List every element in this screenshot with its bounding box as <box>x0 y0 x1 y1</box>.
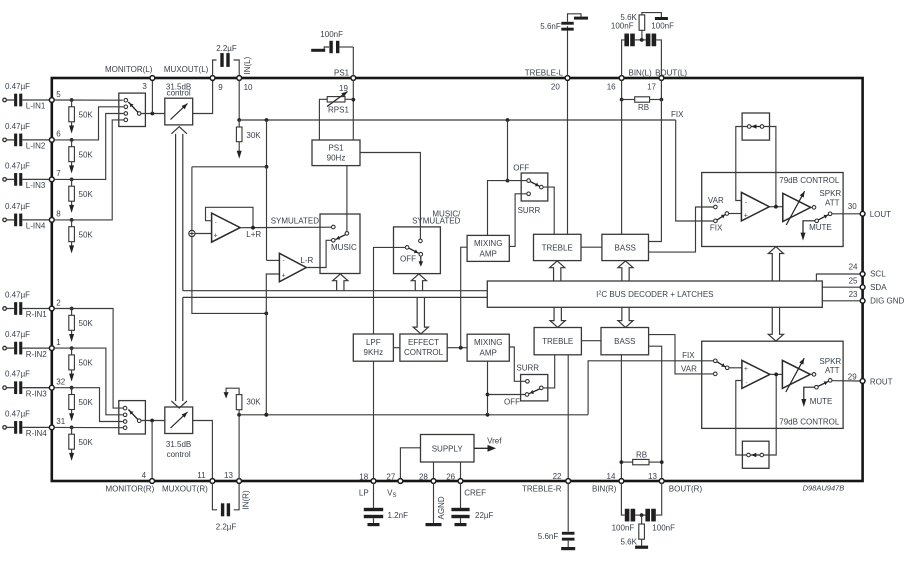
resistor 50K on L-IN2 <box>70 138 74 142</box>
switch SYMULATED/MUSIC <box>320 214 360 274</box>
svg-text:-: - <box>215 219 217 226</box>
ground for 5.6K bottom <box>635 546 648 549</box>
resistor 5.6K top <box>641 30 643 38</box>
pin 6 L-IN2 <box>49 138 54 143</box>
capacitor 2.2uF between pin 11 and pin 13 <box>212 483 217 510</box>
wire PS1 output to music/symulated switch <box>360 153 420 240</box>
resistor 50K on R-IN4 <box>70 426 74 430</box>
resistor 50K on L-IN4 <box>70 218 74 222</box>
I2C arrow into TREBLE R <box>550 307 565 327</box>
pin 2 R-IN1 <box>49 306 54 311</box>
wire MUX-L output to 31.5dB control <box>141 113 165 115</box>
input select switch MUX-L <box>119 93 146 126</box>
svg-text:TREBLE: TREBLE <box>542 243 573 252</box>
svg-text:VAR: VAR <box>708 196 724 205</box>
wire VAR line R from BASS R <box>649 335 714 374</box>
svg-text:50K: 50K <box>79 398 94 407</box>
wire TREBLE L to BASS L <box>581 246 602 248</box>
svg-text:22µF: 22µF <box>475 511 494 520</box>
svg-text:LP: LP <box>359 488 369 497</box>
feedback loop of L+R op-amp <box>206 207 254 227</box>
wire BOUT(L) to BASS L right <box>649 80 662 242</box>
wire pin 26 CREF to SUPPLY <box>460 462 462 479</box>
block PS1 90Hz <box>312 140 360 166</box>
svg-text:R-IN4: R-IN4 <box>26 429 47 438</box>
svg-text:30: 30 <box>848 202 857 211</box>
svg-text:FIX: FIX <box>710 223 723 232</box>
svg-text:100nF: 100nF <box>320 30 343 39</box>
I2C arrow into MUSIC/SYMULATED switch <box>411 274 426 291</box>
wire IN(L) to L-R minus input <box>266 167 268 261</box>
resistor RB R <box>620 460 624 464</box>
svg-text:1: 1 <box>56 338 61 347</box>
I2C arrow into 79dB R <box>768 307 783 341</box>
capacitor 5.6nF on TREBLE-R <box>567 483 569 532</box>
pin 30 LOUT <box>860 211 865 216</box>
ground AGND <box>433 483 435 523</box>
pin 14 BIN(R) <box>619 479 624 484</box>
resistor 50K on L-IN3 <box>70 178 74 182</box>
svg-text:ATT: ATT <box>825 366 840 375</box>
block TREBLE L <box>534 234 582 260</box>
I2C arrow into TREBLE L <box>550 261 565 281</box>
pin 20 TREBLE-L <box>565 76 570 81</box>
volume block 79dB CONTROL R <box>702 341 843 428</box>
pin 23 DIG GND <box>860 298 865 303</box>
svg-text:0.47µF: 0.47µF <box>5 161 30 170</box>
svg-text:L-IN1: L-IN1 <box>26 102 46 111</box>
wire SDA <box>822 286 860 288</box>
wire SURR lower contact to mixing amp output <box>509 194 527 247</box>
wire BASS R to BIN(R) <box>620 355 622 480</box>
svg-text:BIN(L): BIN(L) <box>629 69 652 78</box>
svg-text:control: control <box>167 450 191 459</box>
svg-text:17: 17 <box>647 82 656 91</box>
svg-text:3: 3 <box>142 82 147 91</box>
input coupling capacitor 0.47uF for R-IN2 <box>3 346 7 350</box>
wire pin 20 to TREBLE L <box>567 80 569 234</box>
svg-text:AGND: AGND <box>437 496 446 519</box>
pin 9 MUXOUT(L) <box>210 76 215 81</box>
block TREBLE R <box>534 328 581 355</box>
svg-text:SPKR: SPKR <box>819 189 841 198</box>
svg-text:RPS1: RPS1 <box>328 105 349 114</box>
I2C arrow into BASS L <box>618 261 633 281</box>
svg-text:-: - <box>745 199 747 206</box>
svg-text:30K: 30K <box>246 398 261 407</box>
MUTE arrow L <box>803 221 815 233</box>
svg-text:31.5dB: 31.5dB <box>166 440 191 449</box>
feedback return to output node R <box>764 374 777 455</box>
ground for 5.6K top <box>655 17 668 20</box>
pin 27 VS <box>398 479 403 484</box>
wire music/symulated switch output to LPF <box>374 247 406 334</box>
svg-text:FIX: FIX <box>671 110 684 119</box>
ground for 5.6nF L <box>574 17 588 20</box>
feedback switch box L <box>742 113 769 140</box>
svg-text:11: 11 <box>197 471 206 480</box>
wire DIG GND <box>822 300 860 302</box>
svg-text:18: 18 <box>359 473 368 482</box>
bus arrowhead down into 31.5dB R <box>171 401 187 408</box>
svg-text:50K: 50K <box>79 359 94 368</box>
output node circle L <box>812 206 816 210</box>
wire pin3 MONITOR(L) to mux output node <box>151 79 153 114</box>
pin 26 CREF <box>458 479 463 484</box>
svg-text:100nF: 100nF <box>612 523 635 532</box>
MUX-L lever <box>128 102 137 112</box>
resistor 50K on R-IN2 <box>70 346 74 350</box>
svg-text:AMP: AMP <box>480 348 497 357</box>
pin 19 PS1 <box>351 76 356 81</box>
wire to MIXING AMP L top <box>488 181 508 236</box>
Vref output arrow <box>474 447 490 449</box>
wire mixing amp R output to SURR switch <box>509 347 525 381</box>
svg-text:0.47µF: 0.47µF <box>5 370 30 379</box>
pin 25 SDA <box>860 285 865 290</box>
svg-text:BOUT(R): BOUT(R) <box>669 485 703 494</box>
svg-text:100nF: 100nF <box>652 523 675 532</box>
svg-text:7: 7 <box>56 169 61 178</box>
wire pin 27 VS to SUPPLY <box>400 448 420 479</box>
wire to ROUT <box>832 380 860 382</box>
pin 3 MONITOR(L) <box>150 76 155 81</box>
block MIXING AMP L <box>467 235 509 261</box>
wire summing node down to R line <box>192 237 266 314</box>
capacitors 100nF 100nF above BIN/BOUT L <box>622 40 625 76</box>
svg-text:5.6nF: 5.6nF <box>538 532 559 541</box>
resistor 50K on R-IN1 <box>70 307 74 311</box>
svg-text:RB: RB <box>638 103 649 112</box>
svg-text:BASS: BASS <box>614 337 635 346</box>
svg-text:OFF: OFF <box>400 254 416 263</box>
svg-text:30K: 30K <box>246 131 261 140</box>
svg-text:27: 27 <box>386 473 395 482</box>
svg-text:MIXING: MIXING <box>474 239 502 248</box>
svg-text:BASS: BASS <box>615 243 636 252</box>
svg-text:79dB CONTROL: 79dB CONTROL <box>779 418 840 427</box>
svg-text:4: 4 <box>142 471 147 480</box>
op-amp buffer R <box>742 360 770 388</box>
svg-text:29: 29 <box>848 372 857 381</box>
svg-text:0.47µF: 0.47µF <box>5 291 30 300</box>
feedback switch box R <box>742 441 769 468</box>
wire pin 10 down to 30K node <box>238 80 240 120</box>
IC boundary <box>52 78 863 481</box>
svg-text:SURR: SURR <box>518 206 541 215</box>
svg-text:50K: 50K <box>79 190 94 199</box>
resistor 30K R <box>237 413 241 417</box>
svg-text:ROUT: ROUT <box>870 377 893 386</box>
svg-text:PS1: PS1 <box>334 68 350 77</box>
pin 29 ROUT <box>860 379 865 384</box>
ground for 100nF PS1 <box>311 49 325 52</box>
svg-text:SYMULATED: SYMULATED <box>412 217 461 226</box>
svg-text:9: 9 <box>218 83 223 92</box>
svg-text:Vref: Vref <box>487 437 502 446</box>
svg-text:R-IN1: R-IN1 <box>26 310 47 319</box>
svg-text:VAR: VAR <box>681 364 697 373</box>
pin 28 AGND <box>431 479 436 484</box>
block I2C BUS DECODER + LATCHES <box>487 281 822 307</box>
pin 13 IN(R) <box>237 479 242 484</box>
wire FIX line L <box>676 120 714 221</box>
svg-text:31: 31 <box>56 417 65 426</box>
bus arrowhead up into 31.5dB L <box>171 127 187 134</box>
svg-text:8: 8 <box>56 210 61 219</box>
wire to LOUT <box>832 213 860 215</box>
svg-text:MIXING: MIXING <box>474 338 502 347</box>
svg-text:MONITOR(L): MONITOR(L) <box>105 65 153 74</box>
svg-text:13: 13 <box>224 471 233 480</box>
wire MUX-R output to 31.5dB R <box>141 420 165 422</box>
svg-text:0.47µF: 0.47µF <box>5 409 30 418</box>
svg-text:24: 24 <box>849 263 858 272</box>
feedback return to output node L <box>764 127 776 207</box>
wire 31.5dB R output to pin 11 <box>193 421 213 481</box>
svg-text:control: control <box>167 89 191 98</box>
svg-text:100nF: 100nF <box>611 21 634 30</box>
svg-text:32: 32 <box>56 378 65 387</box>
wire TREBLE R to pin 22 <box>567 355 569 480</box>
capacitors 100nF 100nF below BIN/BOUT R <box>621 483 624 515</box>
svg-text:50K: 50K <box>79 150 94 159</box>
wire SCL <box>816 274 860 281</box>
svg-text:DIG GND: DIG GND <box>870 297 904 306</box>
svg-text:LPF: LPF <box>366 338 381 347</box>
svg-text:IN(L): IN(L) <box>243 56 252 74</box>
svg-text:2.2µF: 2.2µF <box>216 523 237 532</box>
svg-text:100nF: 100nF <box>651 22 674 31</box>
node IN(L) line y=120 <box>239 119 676 121</box>
capacitor 1.2nF on LP <box>373 483 375 509</box>
potentiometer RPS1 <box>352 80 354 140</box>
switch VAR/FIX L <box>714 205 718 209</box>
svg-text:6: 6 <box>56 130 61 139</box>
pin 31 R-IN4 <box>49 425 54 430</box>
wire L-R output to MUSIC input <box>306 240 331 267</box>
svg-text:+: + <box>214 233 218 240</box>
svg-text:SCL: SCL <box>870 270 886 279</box>
volume block 79dB CONTROL L <box>702 173 843 247</box>
svg-text:5: 5 <box>56 90 61 99</box>
pin 24 SCL <box>860 272 865 277</box>
block SUPPLY <box>421 435 475 463</box>
I2C arrow into EFFECT CONTROL <box>413 297 428 334</box>
svg-text:RB: RB <box>636 450 647 459</box>
wire EFFECT CONTROL output to mixing amps <box>447 347 467 349</box>
wire IN(L) branch down to L+R and L-R <box>266 120 268 167</box>
pin 7 L-IN3 <box>49 177 54 182</box>
bus horizontal lines to I2C decoder <box>183 290 488 292</box>
svg-text:50K: 50K <box>79 230 94 239</box>
svg-text:10: 10 <box>244 83 253 92</box>
svg-text:EFFECT: EFFECT <box>408 338 439 347</box>
summing node adder <box>189 230 195 236</box>
bus to 31.5dB controls <box>175 134 177 401</box>
svg-text:SYMULATED: SYMULATED <box>271 216 320 225</box>
svg-text:16: 16 <box>607 82 616 91</box>
svg-text:MONITOR(R): MONITOR(R) <box>106 484 155 493</box>
svg-text:MUTE: MUTE <box>810 397 833 406</box>
I2C arrow into 79dB L <box>768 247 783 281</box>
svg-text:+: + <box>744 212 748 219</box>
input coupling capacitor 0.47uF for R-IN3 <box>3 386 7 390</box>
svg-text:23: 23 <box>849 290 858 299</box>
svg-text:AMP: AMP <box>480 249 497 258</box>
svg-text:9KHz: 9KHz <box>364 348 384 357</box>
svg-text:L-IN3: L-IN3 <box>26 181 46 190</box>
svg-text:14: 14 <box>607 472 616 481</box>
input coupling capacitor 0.47uF for L-IN3 <box>3 178 7 182</box>
wire pin 4 MONITOR(R) <box>151 421 153 481</box>
wire L-IN1 to MUX-L <box>54 99 123 101</box>
op-amp L-R <box>279 253 306 281</box>
svg-text:50K: 50K <box>79 438 94 447</box>
pin 32 R-IN3 <box>49 385 54 390</box>
pin 10 IN(L) <box>237 76 242 81</box>
op-amp buffer L <box>741 192 769 221</box>
wire buffer output R <box>770 373 783 375</box>
svg-text:FIX: FIX <box>682 351 695 360</box>
svg-text:25: 25 <box>849 276 858 285</box>
svg-text:TREBLE: TREBLE <box>542 337 573 346</box>
pin 4 MONITOR(R) <box>150 479 155 484</box>
wire R-IN3 to MUX-R <box>54 388 123 422</box>
wire R-IN4 to MUX-R <box>54 426 125 428</box>
svg-text:CREF: CREF <box>464 488 486 497</box>
pin 16 BIN(L) <box>619 76 624 81</box>
svg-text:PS1: PS1 <box>328 144 344 153</box>
svg-text:D98AU947B: D98AU947B <box>803 484 845 493</box>
svg-text:MUXOUT(L): MUXOUT(L) <box>164 65 209 74</box>
wire TREBLE R to BASS R <box>581 340 601 342</box>
svg-text:26: 26 <box>446 473 455 482</box>
svg-text:MUXOUT(R): MUXOUT(R) <box>162 484 208 493</box>
svg-text:R-IN3: R-IN3 <box>26 389 47 398</box>
input coupling capacitor 0.47uF for R-IN1 <box>3 307 7 311</box>
op-amp L+R <box>195 233 212 235</box>
svg-text:-: - <box>745 380 747 387</box>
svg-text:50K: 50K <box>79 319 94 328</box>
I2C arrow into BASS R <box>618 307 633 327</box>
pin 5 L-IN1 <box>49 98 54 103</box>
svg-text:TREBLE-L: TREBLE-L <box>525 69 564 78</box>
gain block 31.5dB control L <box>165 98 193 125</box>
OFF arrow inside switch <box>420 256 422 261</box>
block EFFECT CONTROL <box>400 334 447 361</box>
wire SURR switch to TREBLE L <box>543 187 554 234</box>
svg-text:SURR: SURR <box>516 363 539 372</box>
svg-text:L+R: L+R <box>246 230 261 239</box>
input coupling capacitor 0.47uF for L-IN1 <box>3 98 7 102</box>
svg-text:OFF: OFF <box>513 164 529 173</box>
node IN(R) line y=414.8 <box>239 414 588 416</box>
svg-text:MUSIC: MUSIC <box>331 243 357 252</box>
svg-text:0.47µF: 0.47µF <box>5 82 30 91</box>
svg-text:0.47µF: 0.47µF <box>5 122 30 131</box>
capacitor 2.2uF between pin 9 and pin 10 <box>213 60 217 76</box>
svg-text:5.6K: 5.6K <box>620 13 637 22</box>
svg-text:50K: 50K <box>79 111 94 120</box>
svg-text:MUTE: MUTE <box>809 223 832 232</box>
MUTE arrow R <box>804 387 815 399</box>
wire R-IN2 to MUX-R <box>54 348 123 415</box>
MUX-R lever <box>128 410 137 420</box>
svg-text:SDA: SDA <box>870 283 887 292</box>
resistor RB L <box>620 98 624 102</box>
svg-text:5.6K: 5.6K <box>621 537 638 546</box>
svg-text:L-IN4: L-IN4 <box>26 222 46 231</box>
svg-text:LOUT: LOUT <box>870 210 891 219</box>
wire LPF to EFFECT CONTROL <box>393 347 400 349</box>
resistor 30K L to ground <box>237 118 241 122</box>
svg-text:90Hz: 90Hz <box>327 154 346 163</box>
svg-text:I2C BUS DECODER + LATCHES: I2C BUS DECODER + LATCHES <box>596 290 713 299</box>
resistor 5.6K bottom <box>641 515 643 524</box>
pin 8 L-IN4 <box>49 218 54 223</box>
pin 1 R-IN2 <box>49 346 54 351</box>
wire R signal down to IN(R) line <box>265 313 267 414</box>
capacitor 100nF at PS1 <box>352 47 354 76</box>
input coupling capacitor 0.47uF for L-IN2 <box>3 138 7 142</box>
feedback wire of buffer R <box>736 381 747 456</box>
switch OFF/SURR right channel <box>521 375 548 401</box>
wire SURR switch R to TREBLE R <box>543 355 555 388</box>
svg-text:22: 22 <box>553 472 562 481</box>
wire IN(L) to OFF/SURR switch L <box>507 120 509 181</box>
I2C arrow into MUSIC switch <box>333 274 348 291</box>
switch VAR/FIX R <box>714 359 718 363</box>
input select switch MUX-R <box>119 401 146 434</box>
wire L-IN4 to MUX-L <box>54 120 125 220</box>
resistor 50K on R-IN3 <box>70 386 74 390</box>
svg-text:0.47µF: 0.47µF <box>5 330 30 339</box>
svg-text:IN(R): IN(R) <box>241 490 250 509</box>
block LPF 9KHz <box>353 334 393 361</box>
switch OFF/SURR left channel <box>521 173 548 201</box>
wire BIN(L) to BASS L top <box>621 80 623 234</box>
wire LPF to pin 18 LP <box>373 361 375 480</box>
svg-text:ATT: ATT <box>825 199 840 208</box>
svg-text:79dB CONTROL: 79dB CONTROL <box>779 176 840 185</box>
wire L+R output SYMULATED line <box>240 226 331 229</box>
input coupling capacitor 0.47uF for L-IN4 <box>3 218 7 222</box>
wire PS1 bottom to music switch common <box>346 166 348 232</box>
variable gain amplifier L <box>783 193 811 221</box>
svg-text:BOUT(L): BOUT(L) <box>655 69 687 78</box>
feedback wire of buffer L <box>736 127 748 201</box>
wire R-IN1 to MUX-R <box>54 309 123 409</box>
svg-text:28: 28 <box>419 473 428 482</box>
pin 13 BOUT(R) <box>659 479 664 484</box>
svg-text:1.2nF: 1.2nF <box>388 511 409 520</box>
pin 18 LP <box>371 479 376 484</box>
wire BASS R right to BOUT(R) <box>649 346 662 480</box>
svg-text:L-R: L-R <box>300 256 313 265</box>
svg-text:BIN(R): BIN(R) <box>592 485 617 494</box>
wire R signal up to L-R plus input <box>266 274 279 313</box>
output node circle R <box>812 373 816 377</box>
capacitor 22uF on CREF <box>460 483 462 509</box>
svg-text:SUPPLY: SUPPLY <box>432 445 464 454</box>
svg-text:13: 13 <box>648 472 657 481</box>
svg-text:R-IN2: R-IN2 <box>26 350 47 359</box>
variable gain amplifier R <box>782 360 810 388</box>
wire FIX line R <box>588 361 713 415</box>
input coupling capacitor 0.47uF for R-IN4 <box>3 426 7 430</box>
wire IN(R) to OFF/SURR switch R and MIXING AMP R <box>487 361 489 415</box>
